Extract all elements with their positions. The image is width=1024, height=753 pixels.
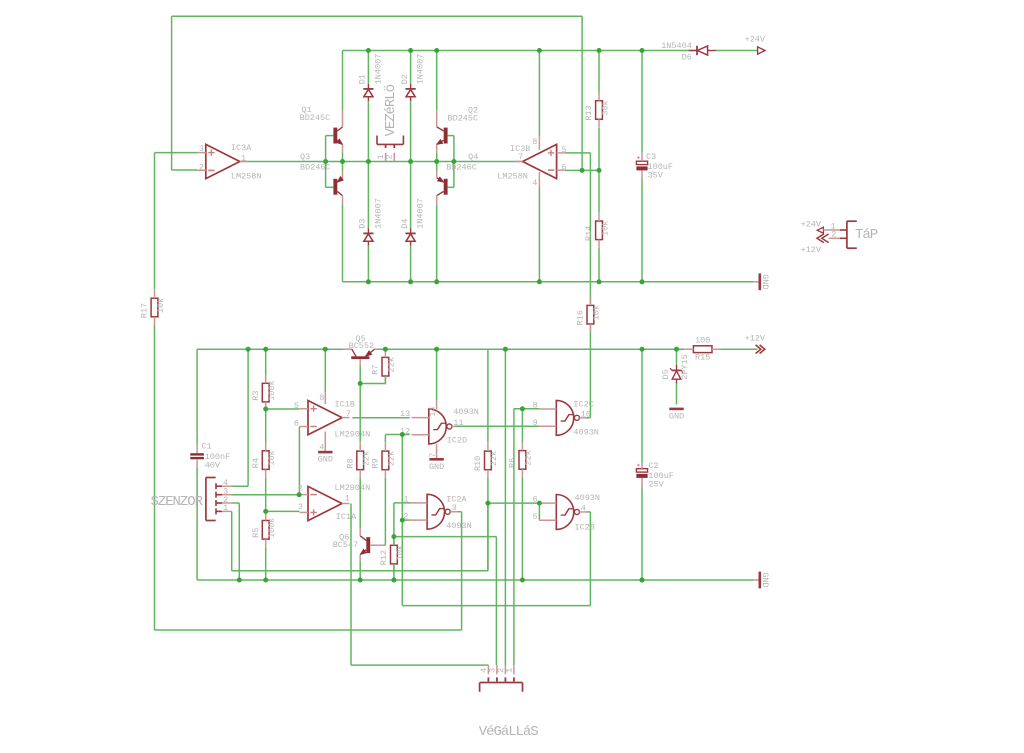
svg-text:R5: R5 [251,528,261,538]
svg-text:10k: 10k [156,298,166,313]
svg-text:6: 6 [294,419,299,429]
svg-text:IC3B: IC3B [510,144,530,154]
svg-text:2: 2 [199,162,204,172]
svg-text:GND: GND [318,455,333,465]
svg-text:1: 1 [241,153,246,163]
svg-text:4: 4 [581,503,586,513]
svg-text:IC1B: IC1B [335,400,355,410]
svg-text:+24V: +24V [745,34,766,44]
svg-text:R7: R7 [371,365,381,375]
svg-text:LM258N: LM258N [497,172,528,182]
svg-text:1N4007: 1N4007 [416,198,426,229]
svg-text:1: 1 [345,493,350,503]
svg-text:+12V: +12V [801,245,822,255]
svg-text:1: 1 [505,668,515,673]
svg-text:5: 5 [294,401,299,411]
svg-text:4093N: 4093N [453,407,479,417]
svg-text:35V: 35V [648,170,664,180]
svg-text:BD245C: BD245C [448,113,479,123]
svg-text:SZENZOR: SZENZOR [151,494,204,510]
svg-text:4093N: 4093N [573,428,599,438]
svg-text:22k: 22k [524,450,534,465]
svg-text:2PY15: 2PY15 [680,354,690,380]
svg-text:D1: D1 [358,74,368,84]
svg-text:R15: R15 [695,353,710,363]
svg-text:1: 1 [223,503,228,513]
svg-text:3: 3 [298,502,303,512]
svg-text:R6: R6 [508,458,518,468]
svg-text:10k: 10k [395,545,405,560]
svg-text:40V: 40V [205,461,221,471]
svg-text:IC3A: IC3A [231,143,252,153]
svg-text:IC2A: IC2A [446,494,467,504]
svg-text:GND: GND [669,412,684,422]
svg-text:100k: 100k [267,518,277,538]
svg-text:30k: 30k [600,100,610,115]
svg-text:5: 5 [533,512,538,522]
svg-text:10k: 10k [592,305,602,320]
svg-text:IC1A: IC1A [336,512,357,522]
svg-text:10k: 10k [600,221,610,236]
svg-text:GND: GND [429,462,444,472]
svg-text:R3: R3 [251,390,261,400]
svg-text:8: 8 [532,137,537,147]
svg-text:BC552: BC552 [349,341,375,351]
svg-text:4093N: 4093N [575,493,601,503]
svg-text:D2: D2 [400,74,410,84]
svg-text:2: 2 [831,230,836,240]
svg-text:R13: R13 [584,105,594,120]
svg-text:2: 2 [298,484,303,494]
svg-text:2: 2 [385,154,395,159]
svg-text:R16: R16 [576,310,586,325]
svg-text:IC2B: IC2B [575,522,595,532]
svg-text:LM2904N: LM2904N [335,483,371,493]
svg-text:9: 9 [533,418,538,428]
svg-text:100k: 100k [267,380,277,400]
svg-text:BD245C: BD245C [300,113,331,123]
svg-text:1N5404: 1N5404 [661,41,692,51]
svg-text:BC547: BC547 [333,540,359,550]
svg-text:LM258N: LM258N [231,171,262,181]
svg-text:GND: GND [760,572,770,587]
svg-text:VéGáLLáS: VéGáLLáS [479,724,538,740]
svg-text:14: 14 [428,407,438,417]
svg-text:BD246C: BD246C [446,162,477,172]
svg-text:R4: R4 [251,458,261,468]
svg-text:1N4007: 1N4007 [373,54,383,85]
svg-text:10k: 10k [267,450,277,465]
svg-text:TáP: TáP [855,227,878,243]
svg-text:25V: 25V [648,479,664,489]
svg-text:4: 4 [532,178,537,188]
svg-text:C2: C2 [648,461,658,471]
svg-text:22k: 22k [489,451,499,466]
svg-text:GND: GND [760,274,770,289]
svg-text:D4: D4 [400,219,410,229]
svg-text:+12V: +12V [745,333,766,343]
svg-text:1N4007: 1N4007 [416,54,426,85]
svg-text:C1: C1 [202,442,212,452]
svg-text:4093N: 4093N [446,521,472,531]
svg-text:22k: 22k [387,357,397,372]
svg-text:Q4: Q4 [468,152,478,162]
svg-text:13: 13 [400,409,410,419]
svg-text:1N4007: 1N4007 [373,198,383,229]
svg-text:8: 8 [533,401,538,411]
svg-text:D3: D3 [358,219,368,229]
svg-text:8: 8 [319,393,324,403]
svg-text:7: 7 [346,409,351,419]
svg-text:LM2904N: LM2904N [335,429,371,439]
svg-text:3: 3 [199,144,204,154]
svg-text:R17: R17 [140,303,150,318]
svg-text:VEZéRLö: VEZéRLö [383,84,399,136]
svg-text:IC2D: IC2D [447,436,467,446]
svg-text:R10: R10 [473,456,483,471]
svg-text:R12: R12 [379,550,389,565]
svg-text:+24V: +24V [801,219,822,229]
svg-text:7: 7 [428,453,438,458]
svg-text:C3: C3 [646,152,656,162]
svg-text:22k: 22k [387,451,397,466]
svg-text:D6: D6 [682,52,692,62]
svg-text:R8: R8 [345,458,355,468]
svg-text:D5: D5 [661,369,671,379]
svg-text:3: 3 [452,503,457,513]
svg-text:R14: R14 [584,226,594,241]
svg-text:100: 100 [695,336,710,346]
svg-text:R9: R9 [371,458,381,468]
svg-text:Q3: Q3 [300,152,310,162]
